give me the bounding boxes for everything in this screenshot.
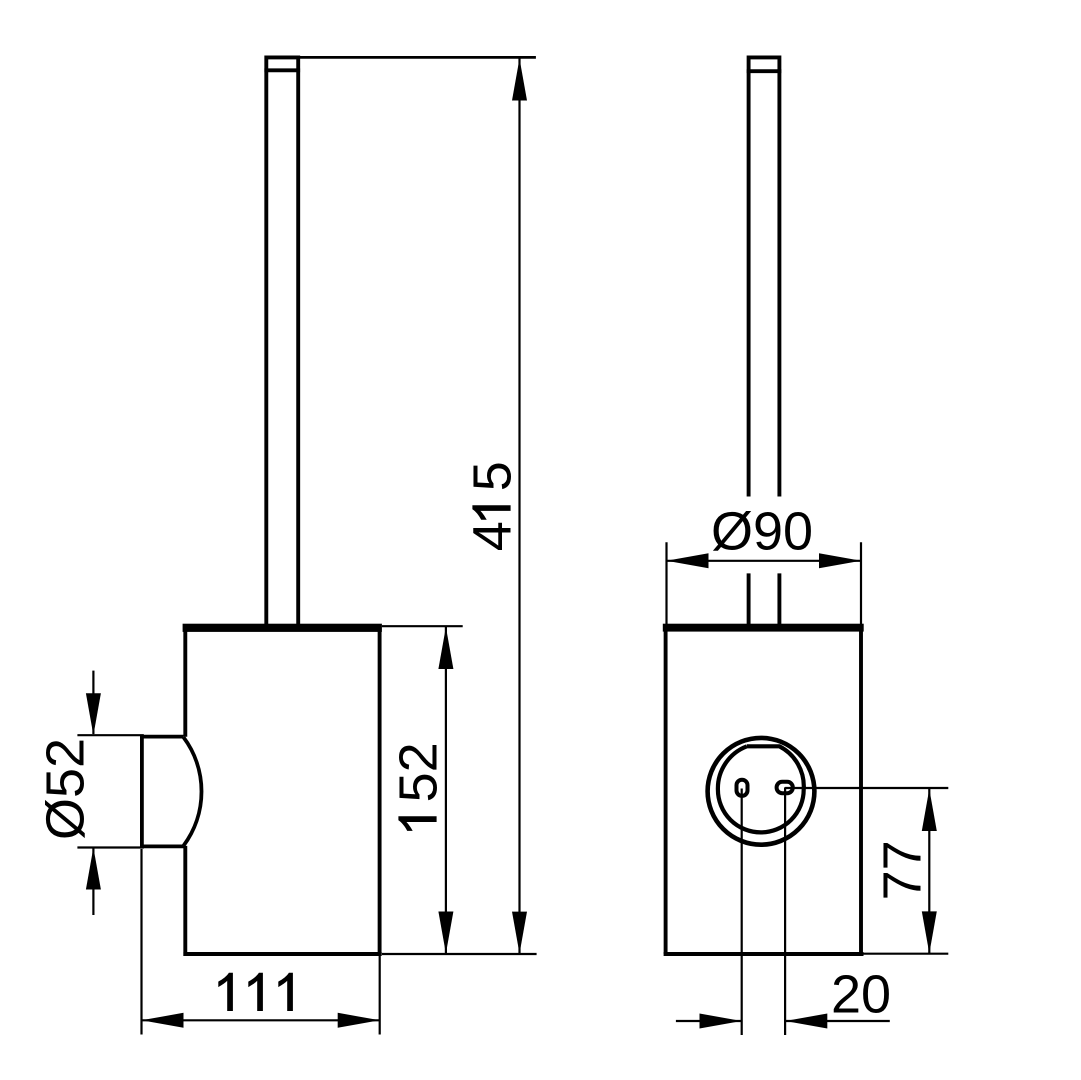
arrowhead 152 bottom: [438, 912, 453, 954]
dimension text 111: [218, 973, 293, 1011]
dimension text 415: [463, 461, 523, 551]
extension line boss top: [77, 734, 143, 736]
arrowhead 20 left (points right): [700, 1014, 742, 1029]
arrowhead 20 right (points left): [785, 1014, 827, 1029]
svg-text:Ø90: Ø90: [711, 502, 813, 562]
container lid (side view): [183, 624, 382, 632]
arrowhead 77 top (points up): [922, 789, 937, 831]
extension line from handle top: [298, 56, 536, 59]
extension line boss bottom: [77, 846, 143, 848]
brush handle (side view): [264, 57, 300, 624]
extension line O90 left: [665, 542, 667, 625]
mounting plate inner circle with flat top: [718, 746, 804, 832]
arrowhead O90 right (points right): [819, 553, 861, 568]
arrowhead 152 top: [438, 627, 453, 669]
arrowhead O52 top (points down): [86, 693, 101, 735]
centre line left slot (extension 20): [741, 789, 743, 1036]
arrowhead 111 left (points left): [142, 1013, 184, 1028]
mounting plate outer circle: [708, 738, 815, 845]
svg-text:Ø52: Ø52: [36, 738, 96, 840]
svg-text:5: 5: [463, 461, 523, 491]
arrowhead 111 right (points right): [338, 1013, 380, 1028]
dimension line 415: [518, 59, 520, 954]
extension line from container bottom (side view): [382, 953, 537, 955]
centre line right slot (extension 20): [784, 787, 786, 1035]
dimension line O90: [667, 560, 862, 562]
handle cap line (side view): [264, 68, 300, 72]
extension line 111 right: [379, 956, 381, 1035]
dimension line 111: [142, 1019, 380, 1021]
container body (side view): [183, 631, 381, 954]
left screw slot: [737, 780, 748, 796]
arrowhead 77 bottom (points down): [922, 911, 937, 953]
svg-text:77: 77: [873, 840, 933, 900]
extension line 77 top (from right slot centre): [785, 787, 948, 789]
extension line 77 bottom: [864, 953, 949, 955]
extension line O90 right: [860, 542, 862, 625]
dimension line 20 right tail: [785, 1020, 890, 1022]
wall-mount boss (side view): [140, 735, 202, 848]
extension line from container top (side view): [382, 625, 463, 627]
container lid (front view): [663, 624, 864, 632]
arrowhead 415 bottom: [512, 912, 527, 954]
dimension text 152: [389, 742, 449, 831]
arrowhead 415 top: [512, 59, 527, 101]
dimension line 20 left tail: [676, 1020, 742, 1022]
svg-text:4: 4: [463, 521, 523, 551]
dimension line O52 lower segment: [92, 849, 94, 916]
dimension line 77: [928, 789, 930, 953]
arrowhead O90 left (points left): [667, 553, 709, 568]
arrowhead O52 bottom (points up): [86, 848, 101, 890]
brush handle (front view), interrupted by dimension text: [747, 57, 782, 624]
handle cap line (front view): [747, 69, 782, 73]
svg-text:5: 5: [389, 772, 449, 802]
svg-text:2: 2: [389, 742, 449, 772]
dimension line O52 upper segment: [92, 671, 94, 734]
right screw slot: [777, 782, 793, 793]
extension line 111 left: [140, 849, 142, 1035]
svg-text:20: 20: [831, 964, 891, 1024]
container body (front view): [664, 631, 864, 954]
dimension line 152: [445, 627, 447, 954]
